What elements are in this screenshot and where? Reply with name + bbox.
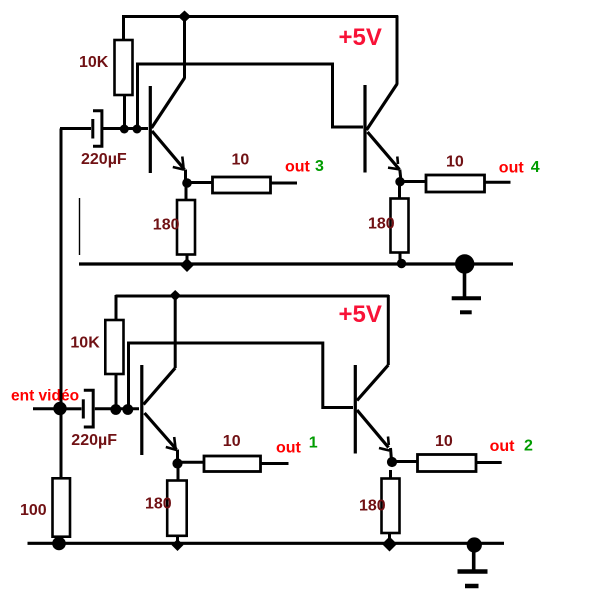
thin stray line left of rail (stage A) bbox=[79, 198, 81, 255]
svg-text:10: 10 bbox=[446, 153, 464, 170]
svg-text:out: out bbox=[490, 438, 516, 455]
node dot input bbox=[53, 402, 66, 415]
ground node big dot (stage A) bbox=[455, 254, 474, 274]
wire out1 bbox=[261, 462, 289, 465]
svg-text:180: 180 bbox=[368, 215, 395, 232]
resistor 180 (stage A left) bbox=[177, 187, 195, 263]
node diamond 180-to-rail (stage B right) bbox=[382, 537, 397, 552]
wire input bbox=[33, 407, 55, 410]
wire +5V top rail (stage B) bbox=[116, 295, 390, 298]
wire E2 to resistor 10 (out4) bbox=[403, 180, 426, 183]
resistor 10 (out3) bbox=[213, 177, 271, 193]
resistor 180 (stage A right) bbox=[391, 186, 409, 263]
transistor Q3 collector diagonal bbox=[144, 368, 176, 405]
node dot emitter E3 bbox=[172, 458, 182, 468]
node diamond 180-to-rail (stage A left) bbox=[180, 258, 194, 272]
svg-text:100: 100 bbox=[20, 502, 47, 519]
wire out2 bbox=[476, 461, 502, 464]
node junction diamond (10K / +5V rail, stage A) bbox=[178, 11, 191, 23]
svg-text:out: out bbox=[285, 159, 311, 176]
node dot base-left (stage B) bbox=[110, 404, 121, 415]
node dot 180-to-rail (stage A right) bbox=[397, 259, 406, 268]
wire E1 to resistor 10 (out3) bbox=[190, 181, 213, 184]
svg-text:10: 10 bbox=[232, 152, 250, 169]
transistor Q3 base bar bbox=[140, 365, 143, 455]
wire E3 to resistor 10 (out1) bbox=[181, 461, 204, 464]
resistor 100 (input) bbox=[53, 478, 71, 543]
svg-text:180: 180 bbox=[153, 216, 180, 233]
capacitor 220uF (stage B) bbox=[66, 390, 139, 427]
ground node big dot (stage B) bbox=[467, 537, 482, 552]
svg-text:10K: 10K bbox=[79, 54, 109, 71]
ground symbol (stage A) bbox=[452, 264, 481, 312]
svg-text:+5V: +5V bbox=[339, 24, 382, 51]
wire interstage link Q3 base to Q4 base (stage B) bbox=[129, 343, 354, 409]
svg-text:4: 4 bbox=[531, 159, 540, 176]
node diamond 180-to-rail (stage B left) bbox=[172, 539, 184, 551]
wire input riser (top cap to input node to 100) bbox=[60, 129, 63, 479]
svg-text:out: out bbox=[499, 159, 525, 176]
node dot base-left (stage A) bbox=[120, 125, 129, 134]
wire Q4 emitter stub bbox=[389, 448, 393, 458]
wire Q2 emitter stub bbox=[400, 170, 401, 182]
svg-text:10: 10 bbox=[223, 433, 241, 450]
svg-text:+5V: +5V bbox=[339, 301, 382, 328]
node dot base-right (stage A) bbox=[133, 125, 142, 134]
wire drop from diamond to Q3 collector bbox=[174, 296, 177, 368]
node dot emitter E4 bbox=[387, 457, 397, 467]
svg-text:10K: 10K bbox=[70, 334, 100, 351]
resistor 10 (out2) bbox=[418, 455, 477, 472]
svg-text:220µF: 220µF bbox=[81, 151, 127, 168]
transistor Q4 emitter diagonal with arrow bbox=[357, 410, 390, 451]
node dot emitter E1 bbox=[182, 178, 192, 188]
svg-text:220µF: 220µF bbox=[71, 432, 117, 449]
wire +5V top rail (stage A) bbox=[122, 15, 398, 18]
ground rail (stage A) bbox=[79, 262, 513, 265]
wire drop from +5V rail to Q4 collector bbox=[387, 295, 390, 365]
transistor Q3 emitter diagonal with arrow bbox=[145, 413, 177, 450]
resistor 10 (out1) bbox=[204, 456, 261, 472]
transistor Q2 emitter diagonal with arrow bbox=[368, 132, 400, 170]
ground symbol (stage B) bbox=[458, 545, 488, 586]
wire drop from diamond to Q1 collector bbox=[183, 17, 186, 79]
wire interstage link Q1 base to Q2 base (stage A) bbox=[138, 64, 364, 129]
wire out3 bbox=[271, 182, 298, 185]
svg-text:2: 2 bbox=[524, 437, 533, 454]
transistor Q4 base bar bbox=[354, 365, 357, 454]
svg-text:10: 10 bbox=[435, 433, 453, 450]
wire Q1 emitter stub bbox=[184, 170, 187, 184]
node junction diamond (10K / +5V rail, stage B) bbox=[170, 290, 182, 301]
wire E4 to resistor 10 (out2) bbox=[396, 460, 418, 463]
resistor 10 (out4) bbox=[426, 175, 485, 192]
svg-text:180: 180 bbox=[145, 496, 172, 513]
wire out4 bbox=[485, 181, 511, 184]
capacitor 220uF (stage A) bbox=[60, 111, 148, 146]
svg-text:1: 1 bbox=[309, 434, 318, 451]
ground rail (stage B) bbox=[28, 542, 505, 545]
transistor Q2 base bar bbox=[363, 85, 366, 173]
svg-text:out: out bbox=[276, 439, 302, 456]
resistor 180 (stage B left) bbox=[167, 468, 187, 543]
transistor Q1 emitter diagonal with arrow bbox=[152, 131, 185, 170]
wire drop from +5V rail to Q2 collector bbox=[396, 16, 399, 85]
node dot base-right (stage B) bbox=[122, 404, 133, 415]
transistor Q1 base bar bbox=[149, 86, 152, 173]
wire Q3 emitter stub bbox=[176, 450, 179, 464]
svg-text:3: 3 bbox=[315, 158, 324, 175]
svg-text:ent vidéo: ent vidéo bbox=[11, 388, 79, 405]
transistor Q1 collector diagonal bbox=[152, 78, 185, 128]
resistor 180 (stage B right) bbox=[382, 470, 400, 542]
resistor R 10K (stage B) bbox=[105, 295, 123, 409]
svg-text:180: 180 bbox=[359, 497, 386, 514]
transistor Q2 collector diagonal bbox=[367, 84, 398, 130]
resistor R 10K (stage A) bbox=[115, 16, 133, 130]
transistor Q4 collector diagonal bbox=[357, 365, 388, 401]
node dot 100-to-rail bbox=[52, 537, 66, 551]
node dot emitter E2 bbox=[395, 177, 404, 186]
